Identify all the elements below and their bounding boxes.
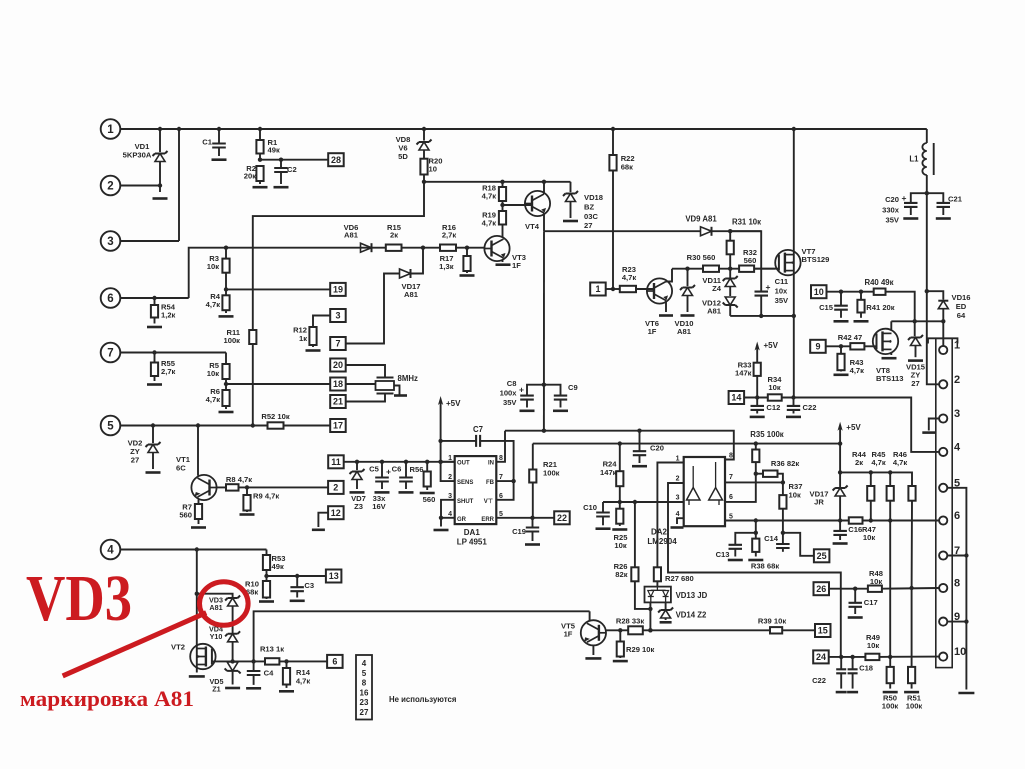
resistor R12 <box>309 327 316 347</box>
svg-text:560: 560 <box>179 511 192 520</box>
label VD12 A81 <box>702 299 722 316</box>
resistor R29 <box>617 630 624 658</box>
ground R9 <box>240 513 255 516</box>
label C10 <box>583 503 597 512</box>
svg-text:R52 10к: R52 10к <box>261 412 289 421</box>
inductor L1 <box>922 129 933 193</box>
connector pin 3 (circle) <box>101 231 179 251</box>
wire node R1-R2 to box28 <box>258 158 329 162</box>
resistor R55 <box>151 350 158 381</box>
box lead 21 <box>330 394 385 409</box>
resistor R54 <box>151 296 158 324</box>
svg-text:10к: 10к <box>870 577 882 586</box>
svg-text:JR: JR <box>814 498 824 507</box>
label R49 10k <box>866 633 880 650</box>
label VD11 Z4 <box>702 276 721 293</box>
label 8MHz <box>398 374 418 383</box>
label R56 <box>410 465 424 474</box>
resistor R51 <box>908 667 915 689</box>
label C2 <box>287 165 297 174</box>
svg-text:17: 17 <box>333 421 343 431</box>
label +5V rail <box>846 423 861 432</box>
wire R49 to pin10 <box>879 656 939 658</box>
ground R51 <box>904 691 919 694</box>
ground VT3 <box>496 263 511 266</box>
svg-text:2,7к: 2,7к <box>442 231 457 240</box>
ground R29 <box>613 660 628 663</box>
svg-text:5: 5 <box>499 511 503 518</box>
wire VT8 drain row <box>891 319 945 323</box>
label R35 100k <box>750 430 783 439</box>
op-amp U DA2 (LM2904) <box>676 453 733 527</box>
capacitor C4 <box>247 661 261 685</box>
diode VD16 <box>927 291 949 321</box>
label R47 10k <box>862 525 876 542</box>
wire VD13 left pin <box>648 602 652 632</box>
label R50 100k <box>882 694 899 711</box>
label R52 10k <box>261 412 289 421</box>
label VD14 Z2 <box>676 611 707 620</box>
label C12 <box>766 403 780 412</box>
svg-text:VD18: VD18 <box>584 193 603 202</box>
svg-text:560: 560 <box>744 256 757 265</box>
wire DA1 pin5 row <box>496 516 554 520</box>
ground box12 <box>312 528 325 531</box>
label R9 4,7k <box>253 492 279 501</box>
svg-text:1,3к: 1,3к <box>439 262 454 271</box>
svg-text:4,7к: 4,7к <box>850 366 865 375</box>
ground VT2 <box>189 675 205 678</box>
ground VD5 <box>225 687 240 690</box>
svg-text:100к: 100к <box>543 469 560 478</box>
resistor R39 <box>770 627 782 633</box>
svg-text:18: 18 <box>333 379 343 389</box>
box lead 28 <box>328 153 344 166</box>
diode VD5 <box>225 662 241 685</box>
ground R17 <box>460 274 475 277</box>
svg-text:R38 68к: R38 68к <box>751 562 779 571</box>
transistor VT7 (MOSFET) <box>775 129 800 316</box>
wire DA2 pin7 row <box>725 480 785 484</box>
resistor R4 <box>222 295 229 313</box>
wire VT4 base <box>503 204 533 206</box>
label C18 <box>859 664 873 673</box>
label C5 <box>369 465 379 474</box>
resistor R15 <box>386 245 402 251</box>
ground VD14 <box>660 621 672 624</box>
wire VT5 collector row <box>254 611 590 661</box>
ground VD7 <box>350 491 365 494</box>
ground C5 <box>375 491 390 494</box>
svg-text:SHUT: SHUT <box>457 499 474 505</box>
connector pin 2 (circle) <box>101 176 160 196</box>
resistor R46 <box>908 486 915 667</box>
label L1 <box>909 155 919 164</box>
svg-text:2к: 2к <box>855 458 863 467</box>
svg-text:C15: C15 <box>819 303 834 312</box>
svg-text:+: + <box>386 467 391 477</box>
svg-text:1: 1 <box>107 124 114 136</box>
label VD9 A81 <box>685 215 717 224</box>
svg-text:+: + <box>902 193 907 203</box>
label VD18 BZ 03C 27 <box>584 193 603 230</box>
label R37 10k <box>789 482 803 499</box>
connector pin 1 (circle) <box>101 119 160 139</box>
label R18 4,7k <box>482 184 497 201</box>
crystal case ground <box>394 386 407 396</box>
label C4 <box>264 669 274 678</box>
svg-text:16: 16 <box>360 688 369 697</box>
svg-text:1F: 1F <box>648 327 657 336</box>
svg-text:A81: A81 <box>209 603 222 612</box>
svg-text:BTS113: BTS113 <box>876 374 903 383</box>
svg-text:R39 10к: R39 10к <box>758 617 786 626</box>
svg-text:C17: C17 <box>864 598 878 607</box>
wire DA2 pin8 stub <box>0 0 1 1</box>
label R38 68k <box>751 562 779 571</box>
label R2 20k <box>244 164 256 181</box>
wire +5V rail <box>533 441 843 445</box>
label R14 4,7k <box>296 668 311 685</box>
capacitor C21 <box>927 193 950 215</box>
svg-text:2: 2 <box>107 181 113 193</box>
svg-text:+: + <box>519 385 524 395</box>
resistor R52 <box>196 422 284 428</box>
label VD4 Y10 <box>209 625 223 642</box>
label VD3 A81 small <box>209 596 223 612</box>
svg-text:2: 2 <box>333 483 338 493</box>
svg-text:2,7к: 2,7к <box>161 367 176 376</box>
label +5V DA1 <box>446 399 461 408</box>
wire R4 row to box19 <box>226 288 330 290</box>
svg-text:10: 10 <box>814 287 824 297</box>
resistor R31 <box>727 231 734 269</box>
wire DA2 pin3 row <box>603 500 684 504</box>
svg-text:4,7к: 4,7к <box>622 273 637 282</box>
ground C2 <box>274 186 289 189</box>
label VD2 ZY 27 <box>128 439 143 465</box>
label +5V R33 <box>764 341 779 350</box>
svg-text:R27 680: R27 680 <box>665 574 694 583</box>
wire VD3 branch top <box>197 594 233 597</box>
wire VD16 to pin1 <box>942 321 944 346</box>
ground C4 <box>246 687 261 690</box>
svg-text:10к: 10к <box>863 533 875 542</box>
svg-text:21: 21 <box>333 397 343 407</box>
wire top supply bus <box>158 127 927 131</box>
transistor VT3 <box>484 236 510 262</box>
box lead 15 <box>815 624 831 637</box>
label VT3 1F <box>512 253 526 270</box>
capacitor C5 <box>375 462 391 489</box>
ground R55 <box>147 383 162 386</box>
wire DA1 pin7 stub <box>496 480 513 482</box>
wire C13-R38 node <box>754 521 758 539</box>
diode VD15 <box>908 321 923 357</box>
label R26 82k <box>614 562 628 579</box>
label VD8 V6 5D <box>396 135 411 161</box>
+5V arrow DA1 <box>438 396 443 441</box>
dual diode VD13 <box>645 587 671 603</box>
resistor R27 <box>654 567 661 586</box>
label R48 10k <box>869 569 883 586</box>
svg-text:R9 4,7к: R9 4,7к <box>253 492 279 501</box>
label C5 33x 16V <box>372 494 386 511</box>
ground VT6 <box>659 314 673 317</box>
capacitor C22 a <box>787 398 800 414</box>
svg-text:2: 2 <box>676 476 680 483</box>
resistor R36 <box>756 471 783 483</box>
connector X1 pin 1 <box>939 340 960 355</box>
ground C22 a <box>786 416 801 419</box>
connector pin 4 (circle) <box>101 540 267 560</box>
svg-text:5: 5 <box>362 669 367 678</box>
svg-text:GR: GR <box>457 517 467 523</box>
label R1 49k <box>268 138 280 155</box>
ground C3 <box>290 599 305 602</box>
label R16 2,7k <box>442 223 457 240</box>
resistor R48 <box>868 586 882 592</box>
svg-text:1F: 1F <box>512 261 521 270</box>
wire R34 row to pin4 <box>782 395 941 452</box>
resistor R24 <box>616 444 623 502</box>
wire R48 to pin8 <box>882 587 939 590</box>
label VD5 Z1 <box>210 677 224 693</box>
label R29 10k <box>626 645 654 654</box>
svg-text:8: 8 <box>362 679 367 688</box>
svg-text:2: 2 <box>954 374 960 386</box>
label R12 1k <box>293 326 307 343</box>
label R8 4,7k <box>226 475 252 484</box>
diode VD1 <box>153 129 168 192</box>
capacitor C12 <box>751 398 765 414</box>
label R7 560 <box>179 503 192 520</box>
connector X1 pin 8 <box>939 578 960 593</box>
resistor R45 <box>887 472 894 659</box>
resistor R41 <box>857 292 864 318</box>
label R40 49k <box>864 278 893 287</box>
label R27 680 <box>665 574 694 583</box>
svg-text:LP 4951: LP 4951 <box>457 538 488 547</box>
svg-text:ERR: ERR <box>481 517 494 523</box>
svg-text:03C: 03C <box>584 212 598 221</box>
svg-text:SENS: SENS <box>457 480 473 486</box>
svg-text:35V: 35V <box>775 296 789 305</box>
resistor R47 <box>849 517 863 523</box>
svg-text:560: 560 <box>423 495 436 504</box>
ground R38 <box>748 559 763 562</box>
resistor R30 <box>703 266 719 272</box>
box lead 22 <box>554 511 570 524</box>
wire R32 to VT7 gate <box>754 268 779 270</box>
svg-text:C5: C5 <box>369 465 379 474</box>
label R4 4,7k <box>206 292 221 309</box>
svg-text:27: 27 <box>131 455 139 464</box>
wire R20 node row <box>422 180 571 184</box>
wire VT6 emitter <box>665 301 667 313</box>
label VD17 A81 <box>402 282 421 299</box>
wire VT1 base row <box>217 485 329 489</box>
box lead 2 <box>328 481 344 494</box>
svg-text:R35 100к: R35 100к <box>750 430 783 439</box>
capacitor C18 <box>848 657 858 689</box>
wire node4 down <box>195 547 199 644</box>
wire VT7 source row <box>730 314 796 318</box>
+5V arrow R33 <box>755 342 760 363</box>
ground C8 <box>520 409 535 412</box>
label R17 1,3k <box>439 254 454 271</box>
label R6 4,7k <box>206 387 221 404</box>
label VT2 <box>171 643 185 652</box>
capacitor C22 b <box>836 657 846 689</box>
svg-text:4: 4 <box>676 511 680 518</box>
svg-text:4,7к: 4,7к <box>871 458 886 467</box>
label R22 68k <box>621 154 635 171</box>
resistor R1 <box>256 129 263 160</box>
wire VD17 branch <box>346 274 400 344</box>
capacitor C2 <box>274 160 288 184</box>
capacitor C6 <box>399 462 413 489</box>
svg-text:27: 27 <box>360 708 369 717</box>
svg-text:35V: 35V <box>885 216 899 225</box>
svg-text:C16: C16 <box>848 525 862 534</box>
ground R4 <box>219 315 234 318</box>
svg-text:4: 4 <box>448 511 452 518</box>
resistor R13 <box>265 658 279 664</box>
label C16 <box>848 525 862 534</box>
box lead 20 <box>330 359 385 378</box>
svg-text:35V: 35V <box>503 398 517 407</box>
svg-text:OUT: OUT <box>457 461 470 467</box>
ground R6 <box>219 411 234 414</box>
wire DA1 gnd rail <box>439 500 455 527</box>
ground VT5 <box>585 657 601 660</box>
resistor R19 <box>499 203 506 236</box>
svg-text:Z4: Z4 <box>712 284 722 293</box>
ground R14 <box>279 690 294 693</box>
wire box18 to crystal <box>346 383 376 385</box>
svg-text:1: 1 <box>954 340 960 352</box>
resistor R40 <box>874 289 886 295</box>
svg-text:9: 9 <box>815 342 820 352</box>
label R55 2,7k <box>161 359 176 376</box>
ground VD1 <box>153 197 168 200</box>
label VT4 <box>525 222 540 231</box>
svg-text:R28 33к: R28 33к <box>616 617 644 626</box>
svg-text:+5V: +5V <box>446 399 461 408</box>
svg-text:10к: 10к <box>614 541 626 550</box>
svg-text:6C: 6C <box>176 463 186 472</box>
label R3 10k <box>207 254 219 271</box>
ground R10 <box>259 600 274 603</box>
label C22 b <box>812 676 826 685</box>
svg-text:82к: 82к <box>615 570 627 579</box>
svg-text:C6: C6 <box>392 465 402 474</box>
resistor R17 <box>463 248 470 273</box>
svg-text:49к: 49к <box>268 146 280 155</box>
box lead 3 <box>313 309 346 327</box>
svg-text:6: 6 <box>499 493 503 500</box>
svg-text:R31 10к: R31 10к <box>732 218 761 227</box>
box lead 12 <box>318 506 343 527</box>
svg-text:C7: C7 <box>473 425 483 434</box>
svg-text:5: 5 <box>729 513 733 520</box>
svg-text:R29 10к: R29 10к <box>626 645 654 654</box>
svg-text:+5V: +5V <box>764 341 779 350</box>
resistor R6 <box>222 390 229 409</box>
wire L1 to pin2 <box>925 191 941 384</box>
wire VD9 to R31 <box>712 229 762 233</box>
svg-text:C22: C22 <box>803 403 817 412</box>
svg-text:2: 2 <box>448 474 452 481</box>
svg-text:49к: 49к <box>272 562 284 571</box>
resistor R7 <box>195 504 202 524</box>
label C14 <box>764 534 779 543</box>
resistor R14 <box>283 661 290 688</box>
svg-text:26: 26 <box>816 584 826 594</box>
wire R42 to VT8 gate <box>864 345 876 347</box>
capacitor C1 <box>212 129 226 156</box>
label C6 <box>392 465 402 474</box>
ground C9 <box>553 409 568 412</box>
label C3 <box>304 581 314 590</box>
svg-text:4: 4 <box>362 659 367 668</box>
resistor R35 <box>725 444 759 502</box>
connector X1 pin 5 <box>939 477 960 492</box>
resistor R51 vert to R48 row <box>0 0 1 1</box>
label C15 <box>819 303 834 312</box>
wire VT2 gate row <box>212 659 265 663</box>
crystal 8MHz <box>376 378 395 394</box>
ground VT1 emitter <box>191 526 206 529</box>
wire pin7 stub <box>947 555 966 557</box>
svg-text:BZ: BZ <box>584 202 594 211</box>
transistor VT5 <box>581 611 607 655</box>
capacitor C16 <box>833 521 847 541</box>
box lead 25 <box>814 549 830 562</box>
label R20 10 <box>429 157 443 174</box>
resistor R42 <box>850 343 864 349</box>
svg-text:Z3: Z3 <box>354 502 363 511</box>
diode VD2 <box>146 423 161 469</box>
svg-text:147к: 147к <box>600 468 617 477</box>
svg-text:7: 7 <box>335 339 340 349</box>
box lead 24 <box>813 650 865 663</box>
label R21 100k <box>543 460 560 478</box>
wire VT6 collector <box>666 269 672 282</box>
svg-text:1,2к: 1,2к <box>161 311 176 320</box>
box lead 7 <box>330 337 346 350</box>
svg-text:10к: 10к <box>867 641 879 650</box>
svg-text:100x: 100x <box>500 388 518 397</box>
wire R13 to box6 <box>279 659 327 663</box>
svg-text:100к: 100к <box>906 701 923 710</box>
svg-text:20к: 20к <box>244 172 256 181</box>
svg-text:IN: IN <box>488 461 494 467</box>
svg-text:4,7к: 4,7к <box>893 458 908 467</box>
svg-text:Y10: Y10 <box>210 632 223 641</box>
svg-text:4,7к: 4,7к <box>206 395 221 404</box>
resistor R28 <box>628 626 643 634</box>
box lead 17 <box>330 419 346 432</box>
diode VD14 <box>658 602 673 620</box>
label VD16 ED 64 <box>952 293 971 320</box>
svg-text:100к: 100к <box>882 701 899 710</box>
label R43 4,7k <box>850 358 865 375</box>
svg-text:A81: A81 <box>344 231 359 240</box>
svg-text:C9: C9 <box>568 383 578 392</box>
label R46 4,7k <box>893 450 908 467</box>
